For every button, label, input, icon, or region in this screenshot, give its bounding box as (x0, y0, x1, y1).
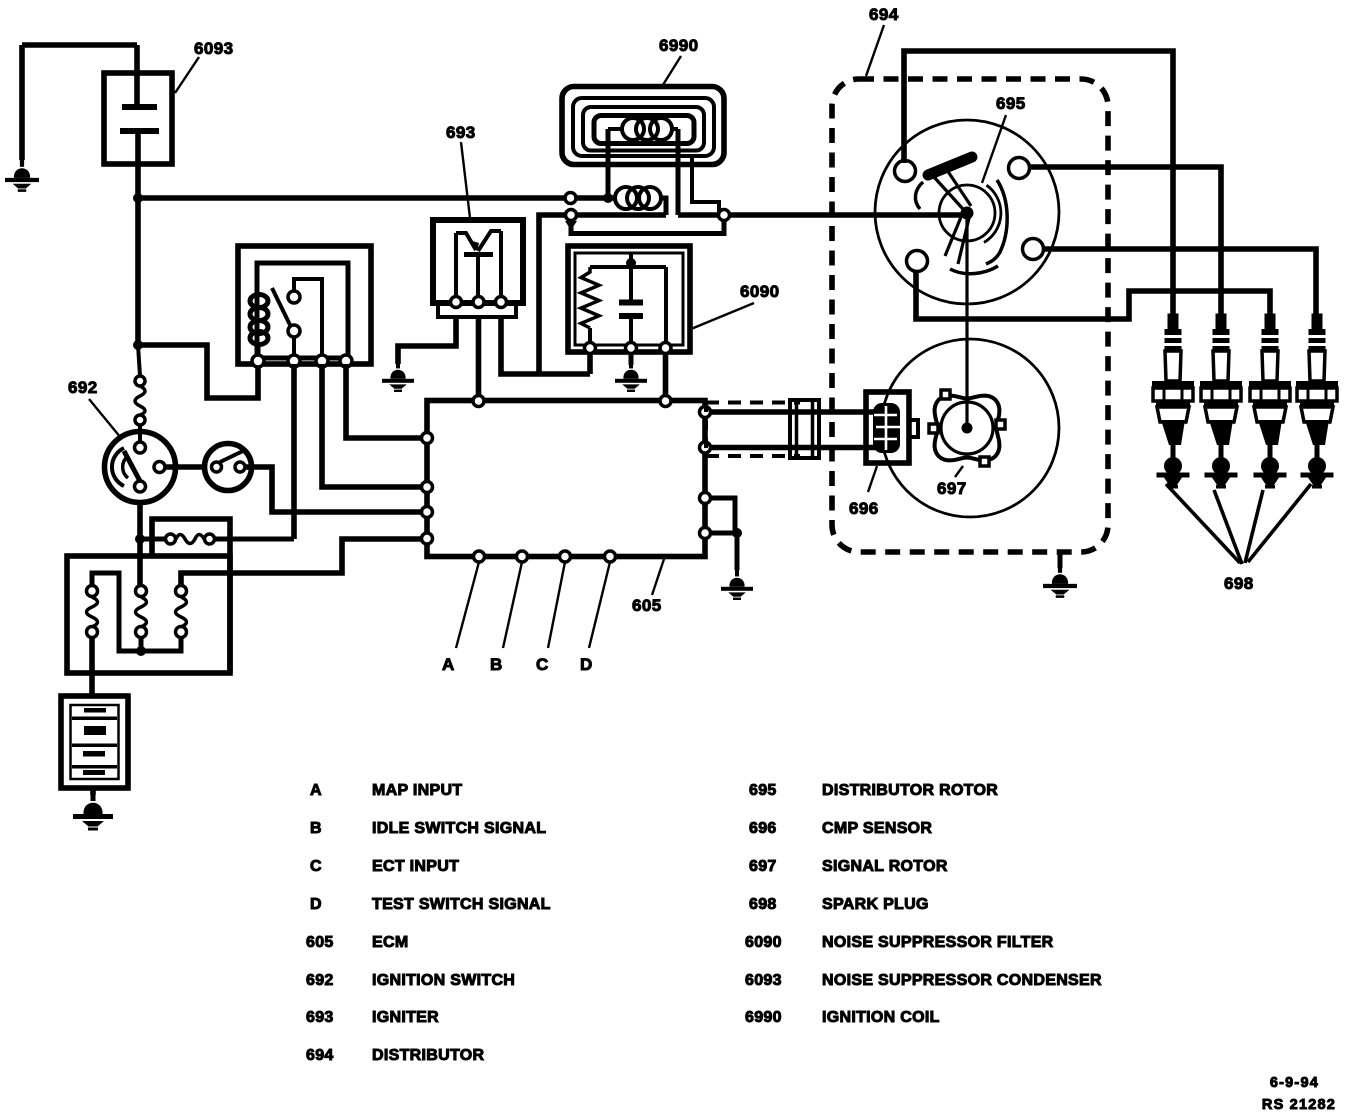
svg-text:IGNITION COIL: IGNITION COIL (822, 1009, 940, 1026)
relay coil (250, 295, 268, 345)
svg-text:6990: 6990 (745, 1009, 782, 1026)
node (136, 646, 146, 656)
distributor cap (875, 120, 1059, 304)
svg-text:6090: 6090 (740, 282, 779, 301)
svg-text:MAP INPUT: MAP INPUT (372, 782, 462, 799)
leaders to 698 (1166, 484, 1311, 564)
svg-text:TEST SWITCH SIGNAL: TEST SWITCH SIGNAL (372, 896, 551, 913)
svg-text:695: 695 (996, 94, 1026, 113)
svg-text:698: 698 (749, 896, 777, 913)
label 696 (849, 466, 879, 518)
ECM 605 box (427, 401, 705, 557)
svg-text:692: 692 (68, 378, 98, 397)
label 693 (446, 123, 476, 218)
legend left column (306, 782, 551, 1064)
signal rotor housing (881, 339, 1059, 517)
relay inner box (257, 263, 348, 358)
node (bus junction) (133, 193, 143, 203)
svg-text:694: 694 (306, 1047, 334, 1064)
leader D (580, 562, 610, 674)
svg-text:6093: 6093 (745, 972, 782, 989)
label 605 (632, 559, 664, 615)
push switch (205, 444, 252, 491)
svg-text:696: 696 (849, 499, 879, 518)
svg-text:A: A (310, 782, 322, 799)
signal rotor 697 (929, 390, 1005, 466)
fuse (ignition) (135, 345, 145, 442)
svg-text:B: B (310, 820, 322, 837)
label 692 (68, 378, 121, 438)
wire plug 1 (904, 51, 1173, 316)
shielded cable (706, 400, 877, 458)
svg-text:DISTRIBUTOR: DISTRIBUTOR (372, 1047, 484, 1064)
wire relay T4 to ECM (346, 364, 427, 438)
noise suppressor filter 6090 (568, 246, 690, 354)
cap terminals (895, 158, 1044, 272)
wire link C top to ECM (181, 539, 427, 586)
ground (battery) (73, 793, 113, 831)
svg-text:SIGNAL ROTOR: SIGNAL ROTOR (822, 858, 948, 875)
svg-text:697: 697 (749, 858, 777, 875)
svg-text:693: 693 (446, 123, 476, 142)
wire igniter right to coil (501, 317, 590, 374)
ignition coil 6990 (562, 87, 963, 234)
node (135, 534, 145, 544)
svg-text:698: 698 (1224, 574, 1254, 593)
wire igniter mid to ECM (476, 317, 482, 401)
spark plug 698 (1) (1152, 314, 1194, 489)
ground (condenser) (5, 45, 39, 192)
leader C (536, 562, 565, 674)
wire filter mid to ground (629, 353, 634, 365)
wire (22, 42, 137, 48)
wire battery feed (89, 637, 95, 696)
CMP sensor 696 (866, 392, 918, 463)
svg-text:CMP SENSOR: CMP SENSOR (822, 820, 932, 837)
svg-text:ECM: ECM (372, 934, 408, 951)
svg-text:693: 693 (306, 1009, 334, 1026)
spark plug 698 (4) (1296, 314, 1338, 489)
svg-text:696: 696 (749, 820, 777, 837)
label 695 (982, 94, 1026, 183)
wire filter right to ECM (663, 353, 669, 401)
ground (ECM) (721, 570, 753, 600)
svg-text:6090: 6090 (745, 934, 782, 951)
label 697 (937, 466, 967, 498)
svg-text:605: 605 (306, 934, 334, 951)
svg-text:605: 605 (632, 596, 662, 615)
svg-text:A: A (442, 655, 455, 674)
fusible link C (176, 586, 187, 638)
rotor inner (939, 185, 995, 241)
distributor rotor 695 (915, 157, 1007, 274)
svg-text:IGNITION SWITCH: IGNITION SWITCH (372, 972, 515, 989)
label 6090 (691, 282, 779, 329)
svg-text:694: 694 (869, 5, 899, 24)
svg-text:695: 695 (749, 782, 777, 799)
fuse (main) (140, 534, 294, 544)
svg-text:6093: 6093 (194, 39, 233, 58)
ignition switch 692 (105, 432, 176, 503)
wire relay T3 to ECM (322, 364, 427, 487)
spark plug 698 (2) (1200, 314, 1242, 489)
svg-text:C: C (536, 655, 549, 674)
svg-text:NOISE SUPPRESSOR FILTER: NOISE SUPPRESSOR FILTER (822, 934, 1054, 951)
fuse box (152, 519, 230, 673)
svg-text:NOISE SUPPRESSOR CONDENSER: NOISE SUPPRESSOR CONDENSER (822, 972, 1102, 989)
fusible link B (136, 586, 147, 638)
fusible link A (87, 586, 98, 638)
leader B (490, 562, 522, 674)
svg-text:SPARK PLUG: SPARK PLUG (822, 896, 929, 913)
svg-text:B: B (490, 655, 503, 674)
wire to relay terminal 1 (138, 345, 258, 398)
svg-text:DISTRIBUTOR ROTOR: DISTRIBUTOR ROTOR (822, 782, 998, 799)
spark plug 698 (3) (1249, 314, 1291, 489)
leader A (442, 562, 479, 674)
wire plug 3 (916, 270, 1270, 319)
svg-text:6990: 6990 (659, 36, 698, 55)
wire igniter left to ground (398, 317, 456, 364)
wire switch bottom down (137, 502, 143, 586)
svg-text:D: D (310, 896, 322, 913)
wire plug 2 (1028, 167, 1221, 316)
wire filter left terminal (587, 353, 593, 374)
svg-text:D: D (580, 655, 593, 674)
wire to test switch (165, 464, 205, 470)
label 694 (866, 5, 899, 76)
label 6093 (175, 39, 233, 93)
svg-text:697: 697 (937, 479, 967, 498)
wire distributor ground (1058, 552, 1063, 568)
igniter 693 (433, 220, 523, 317)
svg-text:ECT INPUT: ECT INPUT (372, 858, 459, 875)
legend right column (745, 782, 1102, 1026)
wire plug 4 (1042, 249, 1316, 316)
relay terminals (252, 355, 352, 367)
node (133, 340, 143, 350)
relay switch (272, 279, 322, 355)
ground (igniter) (382, 362, 414, 392)
battery (61, 696, 128, 788)
ground (filter) (615, 362, 647, 392)
wire down to switch branch (135, 198, 141, 345)
svg-text:RS 21282: RS 21282 (1262, 1097, 1336, 1113)
ground (distributor) (1043, 566, 1077, 598)
wire up to coil minus (539, 215, 566, 374)
fusible link box (67, 556, 230, 673)
wire battery to ground (90, 788, 96, 795)
ECM terminals (422, 396, 711, 563)
relay outer box (238, 246, 371, 364)
wire push switch to ECM (245, 467, 427, 512)
svg-text:IGNITER: IGNITER (372, 1009, 439, 1026)
wire link A loop (92, 573, 181, 651)
label 6990 (659, 36, 698, 88)
wire bus to coil (138, 195, 616, 201)
svg-text:C: C (310, 858, 322, 875)
wire rotor shaft (965, 219, 968, 423)
svg-text:IDLE SWITCH SIGNAL: IDLE SWITCH SIGNAL (372, 820, 546, 837)
wire ECM right loop to ground (710, 498, 737, 533)
svg-text:6-9-94: 6-9-94 (1270, 1075, 1319, 1091)
distributor dashed box (832, 79, 1108, 552)
wire link B bottom (139, 637, 144, 651)
wire relay T2 to fuse (291, 364, 297, 539)
capacitor 6093 (104, 45, 172, 198)
svg-text:692: 692 (306, 972, 334, 989)
